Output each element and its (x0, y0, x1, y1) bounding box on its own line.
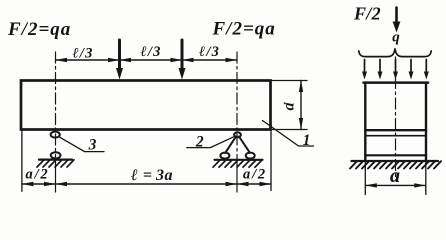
label l/3 second (140, 44, 161, 60)
arrowheads top dimension seg1 (56, 58, 120, 62)
label a/2 left (26, 167, 50, 183)
pin support 2: legs (225, 137, 250, 153)
svg-text:ℓ/3: ℓ/3 (140, 44, 161, 60)
arrowheads a/2 left (22, 182, 56, 186)
distributed load arrow 2 (378, 60, 383, 80)
svg-text:F/2=qa: F/2=qa (212, 19, 276, 40)
top dimension line (56, 59, 238, 61)
label q (392, 30, 400, 46)
dimension a (beam height) (281, 81, 304, 130)
dimension a (side view width) (365, 165, 426, 188)
side view horizontal line 2 (365, 135, 426, 137)
side view column top line (364, 81, 429, 84)
curly brace over distributed load (359, 48, 431, 56)
label F/2=qa left (7, 19, 71, 40)
label F/2=qa right (212, 19, 276, 40)
side view horizontal line 1 (365, 129, 426, 131)
side view column left edge (364, 83, 366, 161)
svg-text:a/2: a/2 (26, 167, 50, 183)
force arrow F/2 side view (393, 8, 401, 33)
svg-text:ℓ/3: ℓ/3 (72, 46, 93, 62)
leader and label 3 (59, 137, 104, 154)
distributed load arrow 4 (409, 60, 414, 80)
svg-text:ℓ=3a: ℓ=3a (130, 167, 172, 184)
svg-text:3: 3 (88, 137, 97, 154)
arrowheads a/2 right (237, 182, 271, 186)
support 2 centerline (dash-dot) (236, 52, 238, 192)
side view column right edge (425, 83, 427, 161)
svg-text:a: a (281, 103, 298, 111)
extension line beam right edge (a/2) (270, 131, 272, 191)
arrowheads top dimension seg3 (182, 58, 237, 62)
leader and label 1 (263, 121, 314, 150)
side view horizontal line 3 (365, 154, 426, 156)
distributed load arrow 5 (424, 60, 429, 80)
label l/3 third (199, 44, 220, 60)
label l=3a (130, 167, 172, 184)
svg-text:F/2=qa: F/2=qa (7, 19, 71, 40)
svg-text:q: q (392, 30, 400, 46)
distributed load arrow 3 (393, 60, 398, 80)
support 3 centerline (dash-dot) (55, 52, 57, 192)
extension line beam left edge (a/2) (21, 130, 23, 191)
svg-text:ℓ/3: ℓ/3 (199, 44, 220, 60)
extension lines for beam height a (271, 81, 308, 130)
beam (front view rectangle) (21, 81, 271, 130)
ground under support 3 (37, 160, 74, 167)
scan speckle (284, 102, 286, 104)
label F/2 side view (353, 4, 381, 24)
label a/2 right (243, 167, 267, 183)
svg-text:F/2: F/2 (353, 4, 381, 24)
pin support 2: roller circles (220, 153, 254, 159)
ground under side view (350, 161, 441, 169)
bottom dimension line (22, 183, 271, 185)
svg-text:2: 2 (195, 134, 204, 151)
leader and label 2 (187, 134, 235, 151)
svg-text:1: 1 (303, 132, 311, 149)
ground under support 2 (213, 160, 263, 167)
svg-text:a: a (390, 165, 400, 187)
label l/3 first (72, 46, 93, 62)
pin support 2: pin circle (234, 132, 241, 137)
side view centerline (dash-dot) (395, 57, 397, 178)
extension lines for width a (side view) (365, 162, 426, 195)
arrowheads top dimension seg2 (120, 58, 183, 62)
svg-text:a/2: a/2 (243, 167, 267, 183)
force arrow F1 (116, 40, 123, 80)
roller support circles (support 3) (51, 132, 61, 159)
force arrow F2 (179, 40, 186, 80)
distributed load arrow 1 (362, 60, 367, 80)
arrowheads l=3a (56, 182, 238, 186)
